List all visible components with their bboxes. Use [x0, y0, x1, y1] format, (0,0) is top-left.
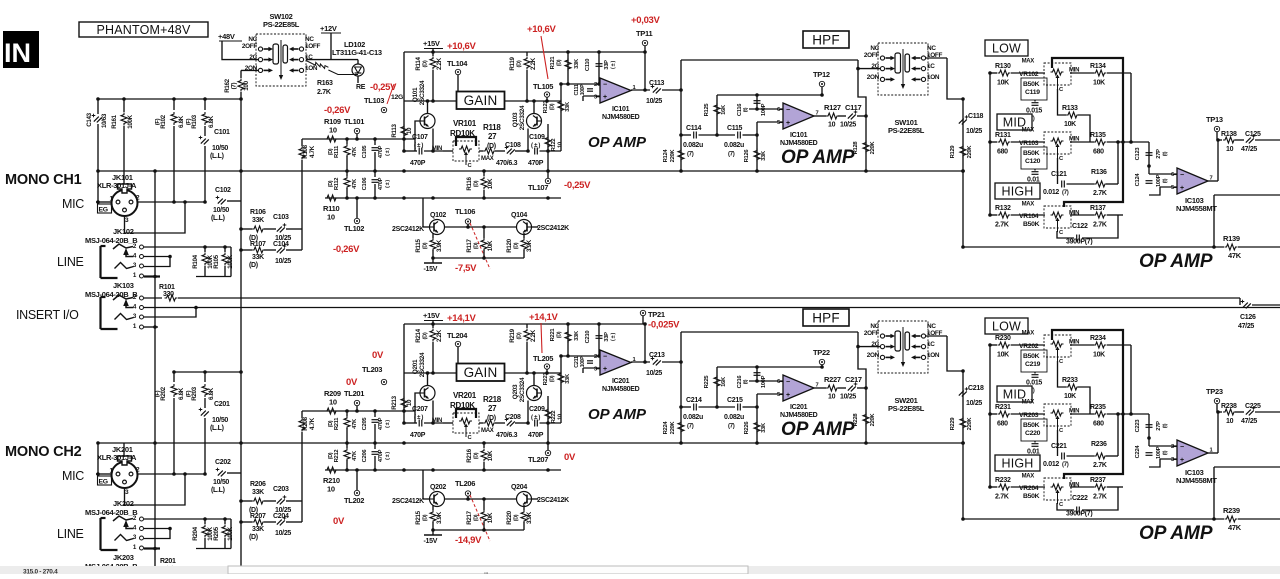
svg-text:−: − [786, 379, 790, 386]
svg-text:0.082u: 0.082u [724, 414, 744, 421]
capacitor C123 [1146, 152, 1153, 154]
svg-text:10: 10 [329, 398, 337, 407]
resistor R231 [998, 411, 1011, 417]
svg-text:OP AMP: OP AMP [588, 406, 647, 423]
op-amp IC101b [783, 103, 814, 129]
svg-text:C218: C218 [968, 385, 984, 392]
svg-text:MONO CH1: MONO CH1 [5, 172, 82, 188]
resistor R202 [173, 372, 175, 382]
resistor R114 [432, 52, 434, 56]
svg-text:2SC3324: 2SC3324 [419, 80, 426, 105]
LOW row [990, 72, 997, 74]
capacitor C105 [374, 139, 376, 145]
svg-text:1C: 1C [927, 341, 935, 348]
svg-text:(D): (D) [249, 262, 258, 269]
resistor R138 [1223, 137, 1236, 143]
svg-text:2.7K: 2.7K [1093, 462, 1107, 469]
svg-text:R203: R203 [191, 386, 198, 400]
svg-text:R104: R104 [192, 254, 199, 268]
svg-text:1ON: 1ON [927, 74, 940, 81]
svg-text:NJM4580ED: NJM4580ED [602, 386, 640, 393]
svg-text:R122: R122 [551, 139, 557, 152]
thick feedback loop [1052, 58, 1123, 207]
op-amp IC201b [783, 375, 814, 401]
resistor R218 [483, 420, 496, 426]
svg-text:R229: R229 [950, 417, 956, 431]
svg-text:( ± ): ( ± ) [414, 415, 423, 421]
resistor R110 [302, 197, 325, 199]
svg-text:2SC2412K: 2SC2412K [537, 497, 569, 504]
capacitor C101 [204, 126, 206, 136]
resistor R103 [204, 99, 206, 110]
svg-text:TP21: TP21 [648, 310, 665, 319]
svg-text:R215: R215 [415, 510, 422, 524]
capacitor C219 [1034, 372, 1036, 374]
svg-text:2OFF: 2OFF [864, 52, 880, 59]
svg-text:R132: R132 [995, 205, 1011, 212]
svg-text:(D): (D) [328, 180, 334, 187]
svg-text:C105: C105 [362, 145, 368, 159]
svg-text:10/50: 10/50 [212, 145, 228, 152]
svg-text:10K: 10K [487, 240, 494, 251]
svg-text:R211: R211 [334, 417, 340, 430]
collector rail [404, 100, 561, 102]
svg-text:27: 27 [488, 404, 497, 413]
svg-text:GAIN: GAIN [464, 365, 498, 380]
svg-text:MIC: MIC [62, 469, 84, 483]
svg-text:−: − [603, 354, 607, 361]
red line tl6 [470, 495, 490, 541]
MID box [997, 114, 1032, 130]
svg-text:47K: 47K [352, 418, 358, 429]
svg-text:R115: R115 [415, 239, 422, 253]
svg-text:(D): (D) [557, 59, 563, 66]
svg-text:2SC3324: 2SC3324 [519, 377, 526, 402]
svg-text:470P: 470P [528, 160, 544, 167]
jack JK203 partial [140, 568, 144, 572]
output wire [631, 89, 650, 91]
svg-text:100P: 100P [761, 375, 767, 388]
svg-text:R120: R120 [506, 238, 513, 252]
capacitor C208 [507, 421, 515, 427]
svg-text:R137: R137 [1090, 205, 1106, 212]
svg-text:33K: 33K [252, 489, 264, 496]
svg-text:XLR-301J-A: XLR-301J-A [97, 453, 137, 462]
svg-text:C225: C225 [1245, 403, 1261, 410]
svg-text:(7): (7) [728, 424, 735, 430]
svg-text:470P: 470P [378, 417, 384, 430]
GAIN box [457, 92, 505, 110]
opamp3 inputs [1149, 173, 1177, 175]
capacitor C216 [756, 367, 758, 381]
HPF box [803, 31, 849, 48]
svg-text:TL205: TL205 [533, 354, 553, 363]
svg-text:10: 10 [406, 127, 413, 134]
switch right wires [947, 336, 963, 371]
thick feedback loop [1052, 330, 1123, 479]
switch right wires [947, 58, 963, 99]
IN tab [3, 31, 39, 68]
svg-text:0.082u: 0.082u [683, 142, 703, 149]
svg-text:100: 100 [243, 80, 250, 90]
MID row [990, 141, 997, 143]
svg-text:2SC3324: 2SC3324 [519, 105, 526, 130]
svg-text:R236: R236 [1091, 441, 1107, 448]
svg-text:100P: 100P [580, 84, 586, 95]
svg-text:33K: 33K [574, 330, 580, 341]
feedback to R239 [1214, 466, 1280, 468]
wires line jack [144, 246, 231, 248]
svg-text:R218: R218 [483, 395, 502, 404]
svg-text:C207: C207 [412, 406, 428, 413]
opamp2 inputs [748, 367, 750, 381]
insert wires [144, 308, 196, 318]
svg-text:R106: R106 [250, 209, 266, 216]
svg-text:2.2K: 2.2K [436, 57, 443, 70]
svg-text:47/25: 47/25 [1238, 323, 1254, 330]
svg-text:MONO CH2: MONO CH2 [5, 444, 82, 460]
svg-text:10/63: 10/63 [101, 113, 108, 128]
svg-text:R217: R217 [466, 510, 473, 524]
svg-text:TL101: TL101 [344, 117, 364, 126]
vertical x98 [97, 171, 99, 202]
svg-text:C143: C143 [86, 112, 93, 126]
svg-text:XLR-301J-A: XLR-301J-A [97, 181, 137, 190]
svg-text:2C: 2C [871, 341, 879, 348]
svg-text:-0,25V: -0,25V [564, 180, 591, 191]
svg-text:R135: R135 [1090, 132, 1106, 139]
svg-text:LT311G-41-C13: LT311G-41-C13 [332, 48, 382, 57]
svg-text:(D): (D) [517, 332, 523, 339]
svg-text:100P: 100P [1156, 174, 1162, 187]
resistor R209 [325, 408, 338, 414]
emitter wires [432, 401, 434, 424]
svg-text:3.9K: 3.9K [526, 239, 533, 252]
svg-text:(D): (D) [423, 514, 429, 521]
capacitor C201 [204, 398, 206, 408]
resistor R227 [826, 385, 839, 391]
HIGH row [990, 486, 997, 488]
svg-text:EG: EG [99, 206, 108, 213]
svg-text:33K: 33K [761, 150, 767, 161]
svg-text:(D): (D) [328, 420, 334, 427]
bottom row [963, 518, 1224, 520]
svg-text:TL107: TL107 [528, 183, 548, 192]
svg-text:220K: 220K [870, 413, 876, 427]
svg-text:(t): (t) [743, 379, 749, 384]
svg-text:2.7K: 2.7K [317, 89, 331, 96]
svg-text:R130: R130 [995, 63, 1011, 70]
svg-text:10K: 10K [1093, 80, 1105, 87]
svg-text:( ± ): ( ± ) [385, 452, 391, 460]
switch wires [858, 332, 866, 388]
svg-text:( ± ): ( ± ) [385, 180, 391, 188]
svg-text:NJM4558MT: NJM4558MT [1176, 204, 1217, 213]
svg-text:R117: R117 [466, 239, 473, 253]
resistor R214 [432, 324, 434, 328]
op-amp IC103 [1177, 168, 1208, 194]
svg-text:R214: R214 [415, 328, 422, 342]
svg-text:33K: 33K [565, 373, 571, 384]
resistor R230 [998, 342, 1011, 348]
svg-text:MAX: MAX [1022, 331, 1035, 337]
svg-text:B50K: B50K [1023, 422, 1040, 429]
svg-text:2.7K: 2.7K [1093, 494, 1107, 501]
svg-text:+: + [1180, 457, 1184, 464]
svg-text:OP AMP: OP AMP [1139, 523, 1213, 544]
svg-text:10: 10 [1226, 146, 1234, 153]
feedback to R139 [1214, 194, 1280, 196]
svg-text:(F): (F) [155, 118, 161, 125]
svg-text:R213: R213 [391, 395, 398, 409]
svg-text:(F): (F) [155, 390, 161, 397]
svg-text:(D): (D) [550, 375, 556, 382]
svg-text:MAX: MAX [1022, 400, 1035, 406]
svg-text:+14,1V: +14,1V [447, 313, 477, 324]
svg-text:+: + [786, 120, 790, 127]
svg-text:LOW: LOW [992, 320, 1021, 334]
svg-text:C121: C121 [1051, 171, 1067, 178]
svg-text:470P: 470P [410, 160, 426, 167]
capacitor C214 [693, 404, 695, 411]
resistor R113 [403, 52, 405, 151]
svg-text:( ± ): ( ± ) [414, 143, 423, 149]
svg-text:C115: C115 [727, 125, 743, 132]
svg-text:R102: R102 [160, 114, 167, 128]
svg-text:( ± ): ( ± ) [611, 332, 617, 341]
transistor Q204 [517, 492, 532, 507]
capacitor C206 [374, 443, 376, 449]
resistor R121 [567, 52, 569, 84]
svg-text:MAX: MAX [1022, 474, 1035, 480]
row2 rail [325, 197, 561, 199]
svg-text:10/50: 10/50 [213, 479, 229, 486]
svg-text:MIN: MIN [432, 418, 442, 424]
svg-text:10: 10 [329, 126, 337, 135]
resistor R221 [567, 324, 569, 356]
resistor R205 [224, 519, 226, 524]
svg-text:R127: R127 [824, 103, 841, 112]
svg-text:2SC3324: 2SC3324 [419, 352, 426, 377]
resistor R129 [960, 145, 966, 158]
svg-text:HPF: HPF [812, 310, 840, 325]
capacitor C113 [653, 88, 661, 94]
svg-text:4.7K: 4.7K [309, 417, 316, 430]
resistor R137 [1070, 214, 1094, 216]
svg-text:R205: R205 [213, 526, 220, 540]
insert send bus [165, 295, 178, 301]
svg-text:MAX: MAX [481, 156, 494, 162]
svg-text:(D): (D) [423, 60, 429, 67]
jack JK102 [140, 245, 144, 249]
svg-text:VR203: VR203 [1019, 412, 1039, 419]
wire mic pin1 [96, 201, 111, 203]
svg-text:R105: R105 [213, 254, 220, 268]
svg-text:3900P(7): 3900P(7) [1066, 511, 1092, 518]
svg-text:+12V: +12V [320, 24, 337, 33]
transistor Q203 [527, 386, 542, 401]
LOW row [990, 344, 997, 346]
resistor R107 row [241, 249, 252, 251]
svg-text:2.7K: 2.7K [1093, 222, 1107, 229]
svg-text:10: 10 [828, 394, 836, 401]
svg-text:PS-22E85L: PS-22E85L [888, 404, 925, 413]
svg-text:NC: NC [927, 323, 936, 330]
svg-text:(t): (t) [1163, 151, 1169, 156]
svg-text:TL203: TL203 [362, 365, 382, 374]
resistor R112 [346, 171, 348, 176]
svg-text:47K: 47K [352, 178, 358, 189]
svg-text:0.012: 0.012 [1043, 461, 1059, 468]
svg-text:10K: 10K [1064, 393, 1076, 400]
svg-text:MAX: MAX [1022, 59, 1035, 65]
resistor R161 [123, 99, 125, 112]
svg-text:(D): (D) [557, 331, 563, 338]
svg-text:1ON: 1ON [305, 65, 318, 72]
svg-text:10K: 10K [1093, 352, 1105, 359]
resistor R228 [865, 388, 867, 443]
svg-text:R232: R232 [995, 477, 1011, 484]
svg-text:−: − [786, 107, 790, 114]
svg-text:2SC2412K: 2SC2412K [537, 225, 569, 232]
svg-text:C213: C213 [649, 352, 665, 359]
vertical bus x241 [240, 171, 242, 567]
svg-text:(L.L): (L.L) [210, 153, 224, 160]
svg-text:TP13: TP13 [1206, 115, 1223, 124]
opamp3 inputs [1149, 445, 1177, 447]
svg-text:1C: 1C [927, 63, 935, 70]
svg-text:(F): (F) [186, 118, 192, 125]
svg-text:+: + [786, 392, 790, 399]
svg-text:B50K: B50K [1023, 493, 1040, 500]
svg-text:R121: R121 [550, 56, 556, 70]
HPF feed [680, 332, 682, 443]
svg-text:33K: 33K [761, 422, 767, 433]
svg-text:HIGH: HIGH [1001, 457, 1033, 471]
capacitor C109 [534, 148, 536, 155]
svg-text:10/25: 10/25 [966, 400, 982, 407]
svg-text:470P: 470P [528, 432, 544, 439]
svg-text:JK103: JK103 [113, 281, 134, 290]
resistor R109 [325, 136, 338, 142]
svg-text:C117: C117 [845, 103, 861, 112]
capacitor C125 [1246, 138, 1254, 144]
svg-text:(t): (t) [1163, 178, 1169, 183]
svg-text:B50K: B50K [1023, 221, 1040, 228]
svg-text:C208: C208 [505, 414, 521, 421]
svg-text:(7): (7) [231, 82, 238, 89]
capacitor C210 [598, 324, 600, 356]
svg-text:1OFF: 1OFF [305, 43, 321, 50]
svg-text:R123: R123 [543, 100, 549, 114]
svg-text:2.2K: 2.2K [530, 57, 537, 70]
resistor R117 [481, 238, 487, 251]
capacitor C124 [1148, 166, 1150, 174]
svg-text:10: 10 [406, 399, 413, 406]
svg-text:470P: 470P [378, 449, 384, 462]
svg-text:NC: NC [870, 45, 879, 52]
MID row [990, 413, 997, 415]
svg-text:0.012: 0.012 [1043, 189, 1059, 196]
svg-text:IN: IN [4, 38, 31, 68]
svg-text:(D): (D) [249, 534, 258, 541]
ch2 feed bus [174, 371, 241, 373]
svg-text:-0,025V: -0,025V [648, 320, 680, 331]
svg-text:R113: R113 [391, 124, 398, 138]
op-amp IC203 [1177, 440, 1208, 466]
capacitor C103 [277, 227, 285, 233]
capacitor C217 [848, 386, 856, 392]
resistor R130 [998, 70, 1011, 76]
svg-text:R134: R134 [1090, 63, 1106, 70]
resistor R219 [526, 324, 528, 328]
svg-text:12G: 12G [391, 94, 403, 101]
svg-text:LOW: LOW [992, 42, 1021, 56]
svg-text:( ± ): ( ± ) [531, 415, 540, 421]
svg-text:IC101: IC101 [790, 132, 808, 139]
svg-text:C223: C223 [1135, 419, 1141, 433]
svg-text:(D): (D) [474, 452, 480, 459]
output row EQ [1217, 411, 1222, 413]
svg-text:R220: R220 [506, 510, 513, 524]
capacitor C106 [374, 171, 376, 177]
resistor R210 [302, 469, 325, 471]
svg-text:R124: R124 [663, 149, 669, 163]
mid row [302, 138, 415, 140]
resistor R132 [998, 212, 1011, 218]
filter row [681, 406, 691, 408]
capacitor C220 [1034, 441, 1036, 443]
resistor R204 [204, 519, 206, 524]
svg-text:NC: NC [305, 36, 314, 43]
wire R162 to bus [240, 99, 242, 171]
capacitor C102 [218, 199, 226, 205]
wire 100k bottom [196, 276, 231, 278]
svg-text:(D): (D) [550, 103, 556, 110]
wire pin3 [125, 474, 186, 505]
resistor R116 [483, 171, 485, 176]
svg-text:C206: C206 [362, 449, 368, 463]
svg-text:(t): (t) [743, 107, 749, 112]
svg-text:C220: C220 [1025, 430, 1041, 437]
test point TL107 [545, 178, 550, 183]
HIGH row [990, 214, 997, 216]
EQ opamp column [1148, 142, 1150, 166]
feedback rail opamp1 [561, 51, 645, 53]
output row2 [814, 387, 826, 389]
resistor R220 [523, 505, 525, 510]
resistor R108 [301, 229, 303, 250]
emitter bus [433, 257, 524, 259]
resistor R105 [224, 247, 226, 252]
svg-text:C202: C202 [215, 459, 231, 466]
capacitor C119 [1034, 100, 1036, 102]
svg-text:+15V: +15V [423, 39, 440, 48]
svg-text:OP AMP: OP AMP [781, 419, 855, 440]
svg-text:JK202: JK202 [113, 499, 134, 508]
svg-text:27P: 27P [1156, 421, 1162, 431]
svg-text:(D): (D) [514, 514, 520, 521]
svg-text:R116: R116 [466, 177, 473, 191]
feedback rail opamp2 [717, 366, 822, 368]
svg-text:2.2K: 2.2K [530, 329, 537, 342]
svg-text:C125: C125 [1245, 131, 1261, 138]
wires line jack [144, 518, 231, 520]
svg-text:C123: C123 [1135, 147, 1141, 161]
svg-text:10/50: 10/50 [212, 417, 228, 424]
svg-text:Q101: Q101 [412, 87, 419, 102]
svg-text:10K: 10K [997, 352, 1009, 359]
